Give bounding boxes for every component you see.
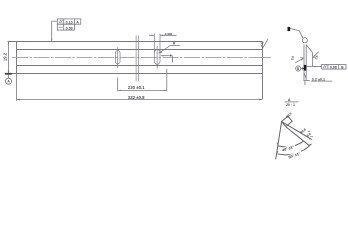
svg-text:A: A — [76, 20, 79, 24]
svg-text:332 ±0.8: 332 ±0.8 — [128, 95, 145, 100]
svg-text:19.2: 19.2 — [2, 52, 7, 61]
svg-text:2×Ø8: 2×Ø8 — [165, 32, 173, 36]
svg-text:50° ±1°: 50° ±1° — [288, 152, 301, 160]
svg-text:230 ±0.1: 230 ±0.1 — [128, 85, 145, 90]
svg-text:0.10: 0.10 — [66, 20, 73, 24]
svg-text:40° ±1°: 40° ±1° — [282, 145, 295, 153]
svg-text:8: 8 — [170, 54, 172, 58]
svg-text:3.2 ±0.1: 3.2 ±0.1 — [312, 78, 325, 82]
svg-text:0.8: 0.8 — [290, 55, 295, 60]
svg-text:R0.5: R0.5 — [285, 111, 293, 118]
svg-text:20 : 1: 20 : 1 — [286, 103, 295, 107]
svg-text:0.08: 0.08 — [330, 65, 337, 69]
svg-text:0.5: 0.5 — [306, 132, 312, 138]
svg-text:0.08: 0.08 — [66, 26, 73, 30]
svg-text:A: A — [288, 97, 291, 102]
svg-text:R: R — [173, 42, 176, 46]
svg-text:A: A — [7, 80, 10, 84]
svg-text:1.5: 1.5 — [314, 55, 319, 60]
